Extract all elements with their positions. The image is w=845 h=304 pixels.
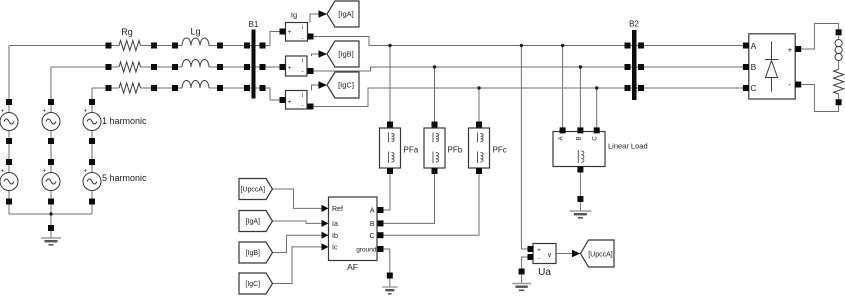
svg-text:+: + bbox=[43, 169, 47, 175]
svg-text:+: + bbox=[288, 99, 292, 106]
svg-text:[IgC]: [IgC] bbox=[338, 81, 354, 90]
svg-text:+: + bbox=[1, 109, 5, 115]
svg-text:5 harmonic: 5 harmonic bbox=[102, 173, 147, 183]
svg-text:B: B bbox=[370, 221, 375, 228]
svg-text:-: - bbox=[301, 35, 303, 42]
svg-text:[IgC]: [IgC] bbox=[245, 281, 260, 288]
svg-text:Rg: Rg bbox=[121, 27, 133, 37]
svg-text:Lg: Lg bbox=[190, 27, 200, 37]
svg-text:[IgB]: [IgB] bbox=[246, 250, 260, 257]
svg-text:C: C bbox=[750, 83, 756, 93]
svg-text:[IgA]: [IgA] bbox=[246, 219, 260, 226]
svg-text:+: + bbox=[1, 169, 5, 175]
svg-text:-: - bbox=[788, 80, 791, 89]
svg-text:Ua: Ua bbox=[538, 267, 551, 278]
svg-text:+: + bbox=[43, 109, 47, 115]
svg-text:B2: B2 bbox=[629, 20, 639, 29]
svg-text:C: C bbox=[369, 233, 374, 240]
svg-text:B: B bbox=[751, 62, 757, 72]
svg-text:i: i bbox=[302, 93, 303, 99]
svg-text:v: v bbox=[548, 252, 552, 259]
svg-text:Ig: Ig bbox=[291, 11, 297, 20]
svg-text:+: + bbox=[84, 169, 88, 175]
svg-text:A: A bbox=[751, 41, 757, 51]
svg-text:1 harmonic: 1 harmonic bbox=[102, 116, 147, 126]
svg-text:PFc: PFc bbox=[493, 146, 507, 155]
svg-text:-: - bbox=[301, 69, 303, 76]
svg-text:[IgA]: [IgA] bbox=[338, 10, 353, 19]
svg-text:[UpccA]: [UpccA] bbox=[588, 252, 613, 259]
svg-text:ground: ground bbox=[356, 246, 377, 253]
svg-text:+: + bbox=[288, 65, 292, 72]
svg-text:A: A bbox=[559, 136, 565, 140]
svg-text:Ia: Ia bbox=[332, 221, 338, 228]
svg-text:Ic: Ic bbox=[332, 245, 338, 252]
svg-text:+: + bbox=[788, 45, 793, 54]
svg-text:-: - bbox=[538, 255, 540, 262]
svg-text:[IgB]: [IgB] bbox=[338, 50, 353, 59]
svg-text:C: C bbox=[593, 136, 599, 141]
svg-text:i: i bbox=[302, 25, 303, 31]
svg-text:-: - bbox=[301, 103, 303, 110]
svg-text:Ref: Ref bbox=[332, 206, 343, 213]
svg-text:B: B bbox=[576, 136, 582, 140]
svg-text:A: A bbox=[370, 208, 375, 215]
svg-text:B1: B1 bbox=[249, 20, 259, 29]
svg-text:PFa: PFa bbox=[404, 146, 419, 155]
svg-text:[UpccA]: [UpccA] bbox=[241, 187, 266, 194]
svg-text:PFb: PFb bbox=[448, 146, 463, 155]
svg-text:+: + bbox=[84, 109, 88, 115]
svg-text:+: + bbox=[537, 247, 541, 254]
svg-text:i: i bbox=[302, 59, 303, 65]
svg-text:+: + bbox=[288, 29, 292, 36]
svg-text:AF: AF bbox=[347, 262, 358, 272]
svg-text:Linear Load: Linear Load bbox=[608, 142, 648, 151]
svg-text:Ib: Ib bbox=[332, 233, 338, 240]
